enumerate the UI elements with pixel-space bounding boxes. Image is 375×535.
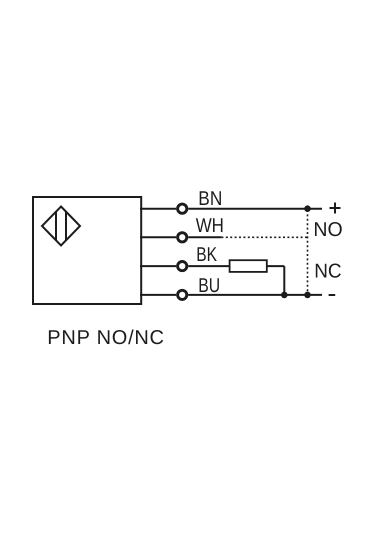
wire BN from box to terminal bbox=[140, 208, 176, 210]
svg-text:WH: WH bbox=[196, 215, 224, 237]
wire WH solid stub bbox=[188, 236, 221, 238]
wire BK from box to terminal bbox=[140, 265, 176, 267]
wire BN to plus node bbox=[188, 208, 322, 210]
minus sign bbox=[329, 294, 336, 296]
diamond inner line right bbox=[65, 212, 67, 241]
wire BU to minus bbox=[188, 294, 322, 296]
diamond inner line left bbox=[55, 212, 57, 241]
junction dot plus node bbox=[304, 205, 311, 212]
load resistor bbox=[230, 260, 267, 272]
svg-text:NC: NC bbox=[314, 260, 341, 282]
sensor symbol diamond bbox=[42, 207, 80, 246]
svg-text:PNP NO/NC: PNP NO/NC bbox=[47, 327, 164, 349]
wire WH dashed to NO node bbox=[221, 236, 307, 238]
junction dot NC node on minus rail bbox=[304, 292, 311, 299]
dashed vertical NO/NC link bbox=[307, 210, 309, 294]
svg-text:NO: NO bbox=[313, 219, 342, 241]
wire resistor to corner bbox=[267, 265, 285, 267]
svg-text:BU: BU bbox=[198, 275, 220, 297]
svg-text:BN: BN bbox=[198, 188, 222, 210]
terminal circle BN bbox=[178, 204, 187, 213]
wire vertical down to minus rail bbox=[283, 266, 285, 295]
terminal circle WH bbox=[178, 233, 187, 242]
svg-text:BK: BK bbox=[196, 244, 217, 266]
wire WH from box to terminal bbox=[140, 236, 176, 238]
junction dot BK on minus rail bbox=[281, 292, 288, 299]
plus sign bbox=[330, 203, 341, 214]
wire BU from box to terminal bbox=[140, 294, 176, 296]
terminal circle BU bbox=[178, 290, 187, 299]
sensor body box bbox=[33, 197, 141, 304]
terminal circle BK bbox=[178, 262, 187, 271]
wire BK to load resistor bbox=[188, 265, 229, 267]
